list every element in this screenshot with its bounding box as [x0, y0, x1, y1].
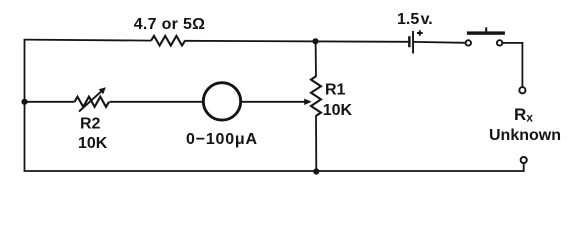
svg-text:10K: 10K [78, 135, 108, 152]
battery positive long plate [412, 31, 414, 54]
terminal Rx top [519, 87, 525, 93]
wire R1 top lead [315, 41, 317, 77]
svg-text:0−100μA: 0−100μA [186, 131, 258, 148]
battery B1 1.5v [408, 30, 423, 53]
battery negative short plate [408, 36, 411, 47]
svg-text:Unknown: Unknown [489, 127, 561, 144]
svg-text:R2: R2 [80, 116, 101, 133]
wire middle rail left segment [25, 101, 75, 103]
R1 wiper arrowhead [304, 99, 312, 105]
switch S1 pushbutton [466, 27, 505, 45]
svg-text:4.7 or 5Ω: 4.7 or 5Ω [134, 16, 206, 33]
switch right contact [497, 40, 502, 45]
switch left contact [466, 40, 471, 45]
svg-text:10K: 10K [323, 102, 353, 119]
meter M1 0-100uA [203, 83, 240, 120]
wire switch to right corner [503, 43, 523, 87]
node junction R1 bottom [313, 168, 319, 174]
wire bottom rail [24, 170, 525, 172]
switch actuator bar [467, 31, 505, 34]
resistor R2 variable zigzag [75, 97, 109, 107]
wire top rail middle segment [185, 41, 409, 42]
wire bottom terminal stub [523, 163, 525, 171]
wire middle rail R2 to meter [110, 101, 204, 103]
wire left vertical rail [24, 40, 26, 172]
terminal Rx bottom [521, 157, 527, 163]
svg-text:1.5 v.: 1.5 v. [397, 11, 433, 28]
resistor R1 vertical zigzag [311, 76, 321, 116]
wire top rail left segment [24, 40, 151, 41]
wire R1 bottom lead [315, 116, 317, 172]
node junction R1 top [312, 38, 318, 44]
resistor R (4.7 or 5 ohm) zigzag [151, 36, 185, 46]
resistor R2 arrow [79, 87, 106, 111]
node junction middle-left [21, 99, 27, 105]
wire middle rail meter to R1 arrow [242, 101, 306, 103]
wire battery to switch [414, 41, 465, 44]
switch actuator stem [485, 27, 487, 31]
svg-text:R1: R1 [325, 81, 346, 98]
battery plus sign [417, 30, 423, 36]
